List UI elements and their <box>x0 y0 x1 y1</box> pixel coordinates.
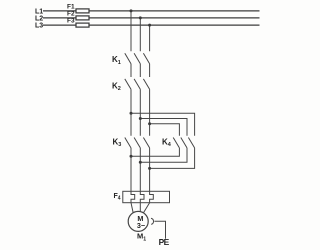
svg-text:L1: L1 <box>35 8 43 15</box>
svg-text:K4: K4 <box>162 137 172 148</box>
svg-text:F1: F1 <box>67 4 75 11</box>
svg-text:K3: K3 <box>113 137 122 148</box>
svg-text:L2: L2 <box>35 15 43 22</box>
svg-text:F3: F3 <box>67 18 75 25</box>
svg-text:K1: K1 <box>112 55 121 66</box>
svg-text:3−: 3− <box>137 221 145 230</box>
svg-text:K2: K2 <box>112 81 121 92</box>
svg-text:PE: PE <box>159 237 170 247</box>
svg-text:F4: F4 <box>114 193 121 202</box>
svg-text:F2: F2 <box>67 11 75 18</box>
svg-text:L3: L3 <box>35 23 43 30</box>
svg-text:M1: M1 <box>137 232 146 243</box>
